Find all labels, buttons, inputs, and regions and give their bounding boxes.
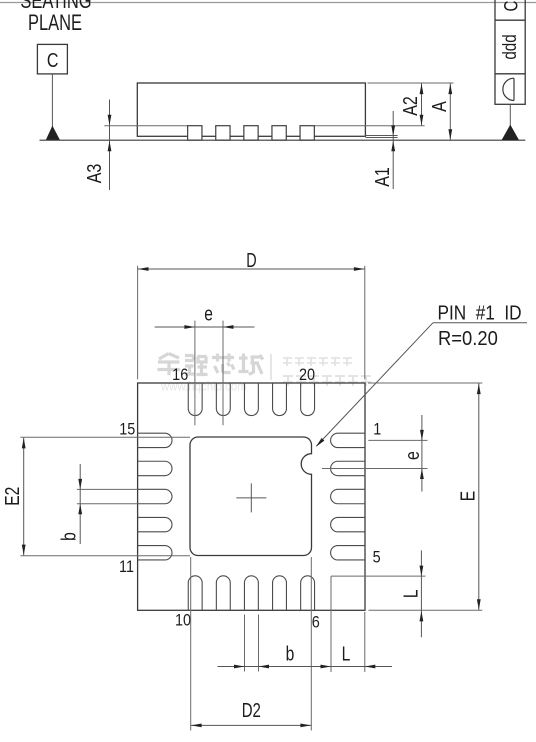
svg-text:D2: D2 [242, 699, 261, 722]
pin 6 pad [301, 576, 315, 610]
pin 14 pad [138, 461, 172, 475]
top border line [0, 2, 536, 4]
pin 20 pad [301, 383, 315, 416]
lead 4 (side view) [272, 126, 286, 140]
pin 2 pad [331, 461, 365, 475]
dimension e (top) [155, 303, 255, 425]
svg-text:e: e [204, 303, 213, 325]
dimension E [368, 383, 482, 610]
lead top line right [314, 125, 424, 127]
watermark small text row 2 [283, 376, 371, 386]
dimension A [428, 83, 452, 139]
datum C leader [51, 74, 53, 127]
dimension E2 [1, 437, 190, 555]
pin 8 pad [244, 576, 258, 611]
body bottom extension right [366, 135, 398, 137]
pin 13 pad [138, 489, 172, 503]
dimension L (right) [331, 550, 426, 637]
svg-text:PLANE: PLANE [28, 11, 82, 36]
lead 1 (side view) [188, 126, 202, 140]
pin 1 pad [331, 433, 365, 447]
pin 3 pad [331, 489, 365, 503]
dimension L (bottom) [321, 576, 393, 672]
dimension b (left) [58, 464, 138, 544]
svg-text:D: D [246, 249, 256, 272]
seating plane line [40, 139, 526, 141]
PIN #1 ID annotation [316, 301, 527, 447]
svg-text:E2: E2 [1, 487, 23, 506]
top extension line right [368, 82, 454, 84]
package body (side view) [137, 83, 365, 136]
datum triangle left [46, 126, 60, 141]
datum triangle right [502, 125, 520, 141]
svg-text:L: L [400, 589, 422, 598]
pin 17 pad [216, 383, 230, 416]
center pad with pin1 notch [190, 437, 312, 556]
frame leader [509, 104, 511, 126]
pin 9 pad [216, 576, 230, 611]
pin 15 pad [138, 433, 172, 447]
svg-text:C: C [47, 49, 59, 71]
svg-text:6: 6 [312, 613, 320, 631]
svg-text:ddd: ddd [498, 34, 520, 59]
pin 11 pad [138, 546, 172, 560]
svg-text:1: 1 [373, 420, 381, 438]
svg-text:C: C [500, 1, 522, 12]
pin 19 pad [273, 383, 287, 416]
pin 5 pad [331, 546, 365, 560]
svg-text:16: 16 [172, 366, 188, 384]
svg-text:15: 15 [119, 420, 135, 438]
svg-text:R=0.20: R=0.20 [438, 329, 498, 351]
package outline (bottom view) [138, 383, 365, 610]
svg-text:b: b [58, 532, 80, 541]
label SEATING PLANE [20, 0, 91, 35]
pin 10 pad [188, 576, 202, 610]
tolerance frame ddd C [495, 0, 525, 104]
pin 7 pad [273, 576, 287, 611]
svg-text:A3: A3 [83, 164, 105, 184]
watermark divider [270, 354, 272, 380]
lead top line left [104, 125, 187, 127]
svg-text:A2: A2 [400, 96, 422, 116]
lead 3 (side view) [244, 126, 258, 140]
svg-text:E: E [457, 491, 479, 501]
svg-text:A1: A1 [372, 167, 394, 187]
dimension e (right) [322, 415, 428, 492]
svg-text:L: L [342, 642, 351, 664]
svg-text:5: 5 [373, 548, 381, 566]
center cross [236, 497, 266, 499]
lead 2 (side view) [216, 126, 230, 140]
lead 5 (side view) [300, 126, 314, 140]
pin 18 pad [244, 383, 258, 416]
svg-text:b: b [286, 642, 295, 664]
svg-text:11: 11 [119, 558, 134, 576]
dimension A3 [83, 100, 111, 191]
dimension D [138, 249, 365, 380]
svg-text:PIN #1 ID: PIN #1 ID [438, 301, 522, 324]
dimension A2 [400, 83, 424, 125]
pin 16 pad [188, 383, 202, 416]
datum C box [37, 44, 67, 74]
dimension A1 [372, 111, 396, 189]
svg-text:e: e [401, 451, 423, 460]
watermark big text [158, 354, 264, 376]
svg-text:A: A [428, 100, 450, 111]
svg-text:20: 20 [299, 366, 315, 384]
dimension b (bottom) [218, 615, 332, 672]
pin 4 pad [331, 517, 365, 531]
pin 12 pad [138, 517, 172, 531]
watermark small text row 1 [283, 358, 352, 366]
flatness symbol [503, 78, 514, 100]
dimension D2 [191, 557, 312, 731]
svg-text:10: 10 [175, 611, 191, 629]
